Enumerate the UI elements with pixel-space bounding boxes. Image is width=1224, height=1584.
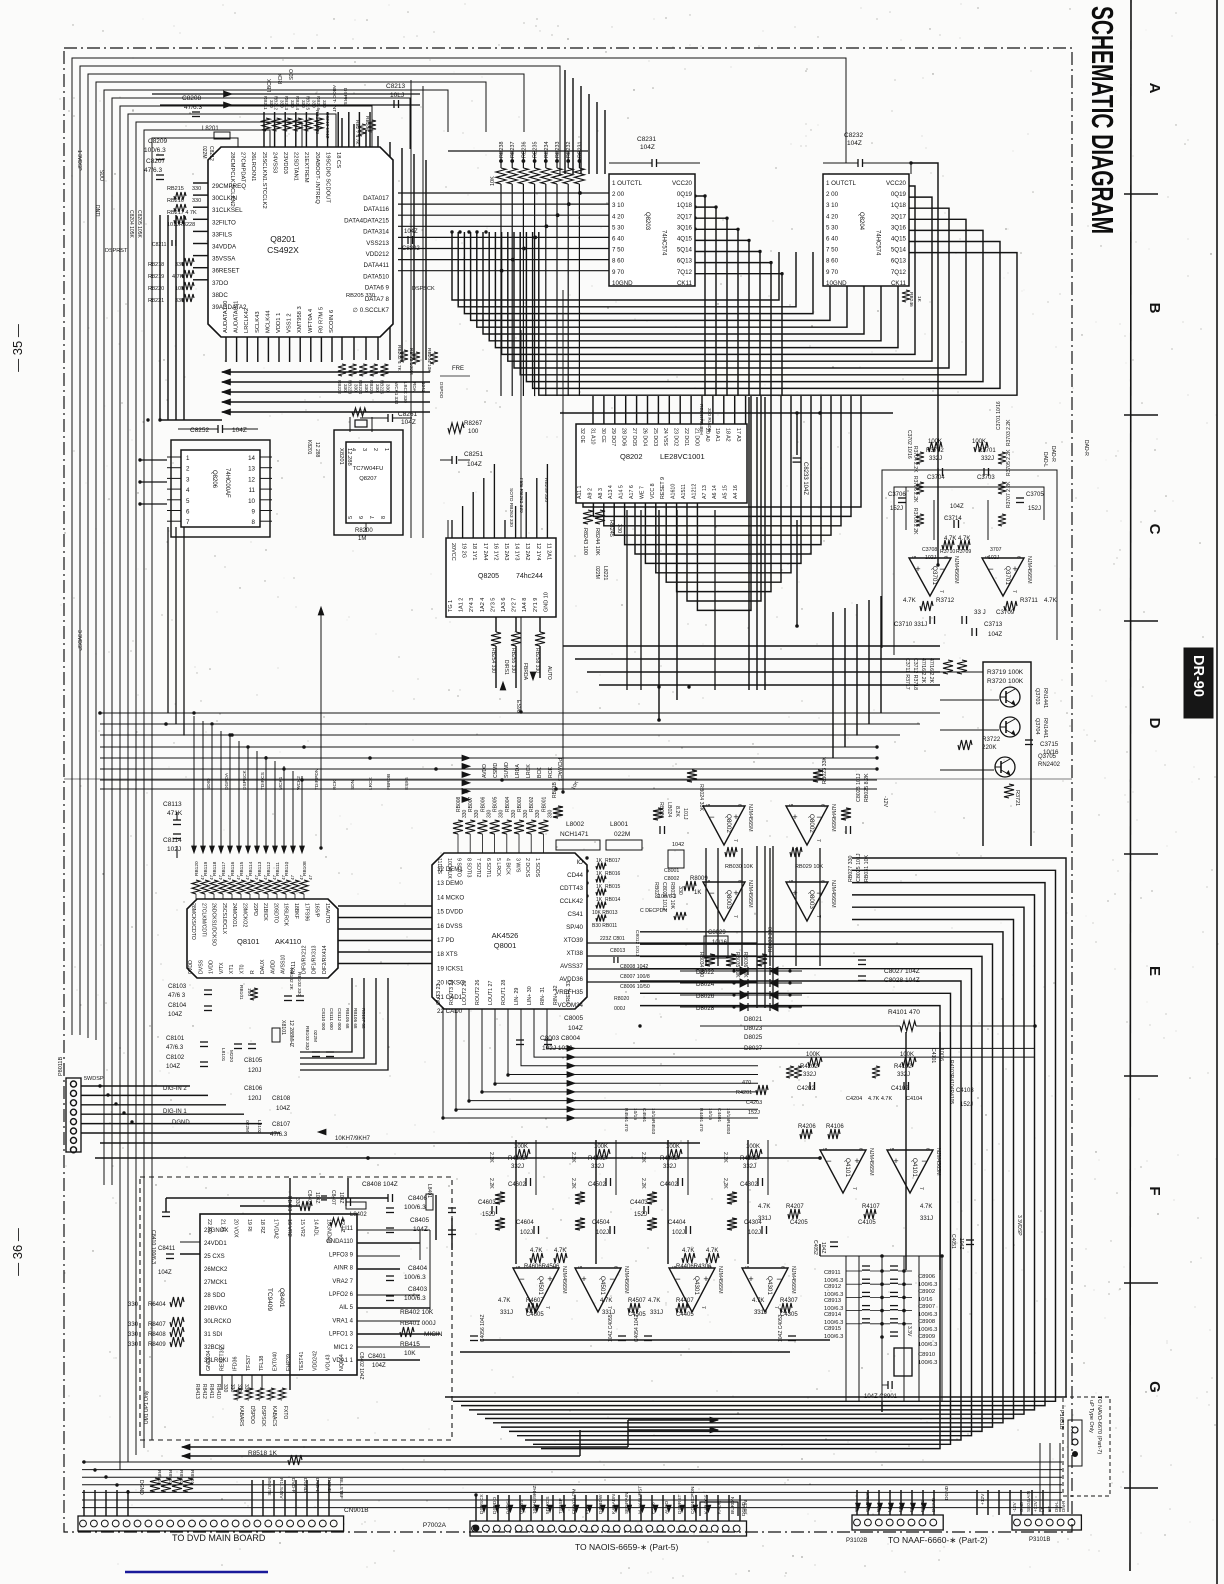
net label PCM/AC3 [556,758,562,781]
wire [128,114,336,1462]
svg-text:101J: 101J [682,808,688,820]
wire [547,1009,1035,1048]
wire [595,1140,597,1264]
svg-text:4.7K: 4.7K [920,1204,932,1210]
wire [933,500,935,540]
svg-text:DGND: DGND [741,1501,747,1516]
connector CN901B body [78,1507,369,1543]
wire [536,478,538,538]
svg-text:5WDSP: 5WDSP [84,1076,104,1082]
wire [182,1446,628,1448]
svg-text:FBRDB: FBRDB [386,774,392,790]
node [657,685,660,688]
svg-text:NQL44: NQL44 [339,1354,345,1371]
svg-text:−: − [816,812,821,822]
svg-text:NCH1471: NCH1471 [560,831,589,838]
svg-text:332J: 332J [743,1164,756,1170]
svg-text:7 50: 7 50 [612,247,625,254]
wire [657,396,659,424]
svg-text:MCK1: MCK1 [278,776,284,790]
svg-text:−: − [988,564,993,574]
svg-text:R3710: R3710 [940,549,955,555]
svg-text:C8404: C8404 [408,1265,428,1272]
svg-text:R8200: R8200 [355,528,373,534]
svg-text:RB215: RB215 [167,186,184,192]
svg-text:6: 6 [736,880,742,883]
svg-text:XT1: XT1 [229,964,235,974]
svg-text:022M: 022M [201,146,207,159]
wire [353,124,355,360]
svg-text:7: 7 [544,1306,550,1309]
IC Q8206 74HC00AF body [167,440,272,537]
margin tick [1124,853,1158,855]
signal arrow [567,1054,575,1060]
svg-text:C8232: C8232 [844,132,864,139]
wire [180,1253,200,1255]
svg-text:RB119: RB119 [203,861,209,876]
svg-text:LRCLK42: LRCLK42 [244,308,250,333]
wire [486,1495,488,1521]
svg-text:23MCKO2: 23MCKO2 [242,903,248,927]
svg-text:RCK: RCK [278,73,284,84]
node [138,458,141,461]
svg-text:FXTO: FXTO [282,1406,288,1419]
wire [819,848,821,966]
net label BT [1047,1506,1052,1512]
capacitor C8205 [136,210,142,238]
node [903,184,906,187]
connector P1651B body [1058,1396,1110,1496]
svg-text:7: 7 [370,516,376,519]
wire [220,731,222,848]
wire [167,215,169,420]
wire [82,1507,1062,1509]
svg-text:16 DVSS: 16 DVSS [437,923,462,930]
svg-text:NJM4565M: NJM4565M [953,556,959,584]
svg-text:C8907: C8907 [918,1304,935,1310]
svg-text:19SLRCK: 19SLRCK [283,903,289,927]
svg-text:BURDN: BURDN [730,1496,736,1514]
svg-text:10/16: 10/16 [632,1108,638,1120]
wire [677,396,771,592]
wire [480,1339,830,1341]
svg-text:104Z: 104Z [640,144,655,151]
svg-text:102J: 102J [596,1230,609,1236]
svg-text:27CLKM/CDTI: 27CLKM/CDTI [200,903,206,937]
svg-text:VREFL 33: VREFL 33 [566,981,572,1005]
resistor R8200 [355,523,373,542]
wire [640,1495,642,1521]
net label 10KH7/9KH7 [335,1136,371,1142]
wire [469,1009,758,1101]
svg-text:AK4526: AK4526 [492,931,519,940]
wire [564,70,566,174]
node [795,624,799,628]
op-amp Q3701 A body [909,556,959,596]
svg-text:17 2A4: 17 2A4 [482,543,488,560]
net label SDO [289,69,295,80]
node [104,1475,107,1478]
capacitor C8410 [150,1212,170,1264]
svg-text:102J: 102J [925,555,937,561]
svg-text:17FS96: 17FS96 [303,903,309,921]
svg-text:RB231: RB231 [577,142,583,158]
svg-text:14 1Y3: 14 1Y3 [514,543,520,560]
capacitor network C3711 C3712 [904,658,967,690]
node [246,745,249,748]
svg-text:Q8207: Q8207 [359,476,376,482]
wire [889,1490,891,1515]
wire [112,98,410,1185]
node [106,1093,109,1096]
svg-text:LOUT2 25: LOUT2 25 [462,981,468,1005]
node [875,756,878,759]
node [585,869,588,872]
svg-text:DATA314: DATA314 [363,229,389,236]
svg-text:0Q19: 0Q19 [891,191,907,198]
svg-text:4.7K: 4.7K [903,597,917,604]
capacitor C4053 [778,1314,796,1342]
node [818,1156,822,1160]
svg-text:C4102: C4102 [891,1086,909,1092]
svg-text:RN1441: RN1441 [1042,688,1048,708]
resistor R4307 network [752,1298,798,1318]
wire [593,396,851,516]
svg-text:330: 330 [280,100,285,108]
svg-text:+: + [1012,564,1017,574]
node [282,767,285,770]
svg-text:2.2K: 2.2K [722,1152,728,1163]
wire [695,229,738,396]
wire [338,951,432,953]
wire [739,1495,741,1521]
signal arrow [495,1505,500,1512]
svg-text:21BICK: 21BICK [262,903,268,921]
svg-text:DATA510: DATA510 [363,273,389,280]
svg-text:RB118: RB118 [212,861,218,876]
signal arrow [567,1089,575,1095]
net label FR [898,1505,904,1512]
connector P8011B body [58,1057,104,1153]
signal arrow [614,1505,619,1512]
wire [552,1495,554,1521]
wire [193,279,208,281]
model tab DR-90 [1184,648,1213,718]
wire [82,1499,1062,1501]
svg-text:C4302: C4302 [740,1182,758,1188]
title SCHEMATIC DIAGRAM [1085,6,1120,234]
svg-text:X8201: X8201 [338,448,344,465]
svg-text:332J: 332J [981,456,994,462]
svg-text:19 2G: 19 2G [461,543,467,558]
resistor bank RB017 [596,858,621,909]
svg-text:R1LS45V: R1LS45V [278,1478,284,1499]
svg-text:LIN+ 30: LIN+ 30 [527,986,533,1005]
net label TDIRPDN [314,768,320,790]
svg-text:47/6.3: 47/6.3 [270,1131,288,1138]
svg-text:R8218: R8218 [148,262,164,268]
svg-text:C8208: C8208 [182,95,202,102]
zone label A [1146,83,1163,94]
wire [357,1229,430,1231]
svg-text:104Z: 104Z [421,382,426,393]
svg-text:D8024: D8024 [696,981,715,988]
resistor RB202 [396,345,408,372]
net label DNTL [94,205,100,218]
svg-text:GND034: GND034 [206,1350,212,1371]
resistor R8217 [167,210,197,224]
svg-text:Q4101: Q4101 [844,1158,851,1177]
wire [100,788,877,790]
svg-text:7: 7 [732,839,738,842]
svg-text:ES9G: ES9G [404,777,410,790]
svg-text:18 1Y1: 18 1Y1 [471,543,477,560]
node [115,1483,118,1486]
svg-text:RB235: RB235 [533,142,539,158]
wire [695,274,782,396]
svg-text:330: 330 [301,100,306,108]
svg-text:104Z: 104Z [820,1242,826,1253]
svg-text:1Q18: 1Q18 [677,202,693,209]
svg-text:RB105 68: RB105 68 [345,1008,350,1029]
signal arrow [567,1107,575,1113]
svg-text:Q3703: Q3703 [1034,688,1040,705]
capacitor C8105 [234,996,334,1074]
svg-text:C8205 105K: C8205 105K [136,210,142,238]
svg-text:5: 5 [576,1266,582,1269]
svg-text:21EXTREM: 21EXTREM [303,152,309,183]
svg-text:−: − [709,812,714,822]
svg-text:L8101: L8101 [220,1048,226,1062]
wire [159,215,161,420]
wire [338,963,432,965]
svg-text:6: 6 [612,1266,618,1269]
wire [165,1198,167,1212]
svg-text:10/16: 10/16 [712,940,728,946]
capacitor C3710 [894,616,935,628]
resistor bank RB108-RB120 body [192,861,313,899]
resistor RB207 [354,120,366,145]
svg-text:6: 6 [819,880,825,883]
svg-text:332J: 332J [803,1072,816,1078]
svg-text:ROUT1 28: ROUT1 28 [501,980,507,1005]
svg-text:D8021: D8021 [744,1016,763,1023]
wire [534,1009,1035,1057]
svg-text:6 40: 6 40 [826,236,839,243]
svg-text:NJM4565M: NJM4565M [868,1148,874,1176]
node [302,745,306,749]
wire [274,761,276,848]
net label SDO2 [98,170,104,181]
signal arrow [300,846,305,853]
wire [604,110,606,174]
capacitor C8103 [168,983,212,1018]
svg-text:RB2 7 4 7K: RB2 7 4 7K [354,120,360,145]
wire [939,1032,941,1270]
wire [687,1140,689,1195]
wire [475,1495,477,1521]
svg-text:VDD242: VDD242 [312,1351,318,1371]
svg-text:19 ICKS1: 19 ICKS1 [437,965,464,972]
svg-text:6: 6 [736,804,742,807]
svg-text:RB211: RB211 [263,96,268,110]
svg-text:AUDATA041: AUDATA041 [234,301,240,333]
wire [100,768,877,770]
signal arrow [878,1503,883,1510]
wire [369,112,371,147]
wire [140,459,167,461]
node [484,230,487,233]
svg-text:WCK1 330: WCK1 330 [394,382,399,405]
svg-text:+: + [748,1274,753,1284]
wire [607,1495,609,1521]
svg-text:GND 10: GND 10 [543,592,549,612]
wire [82,1476,1062,1478]
svg-text:Q8003: Q8003 [808,890,815,909]
wire [933,1490,935,1515]
svg-text:BLLSTBF: BLLSTBF [338,1478,344,1499]
wire [222,391,430,393]
svg-text:100K: 100K [972,439,986,445]
capacitor C8012 [634,930,640,956]
net label FXTO [920,1499,926,1512]
svg-text:332J: 332J [663,1164,676,1170]
svg-text:331J: 331J [650,1310,663,1316]
wire [358,112,360,147]
svg-text:RB238: RB238 [499,142,505,158]
crystal X8201 [338,408,372,466]
signal arrow [534,1505,539,1512]
svg-text:C8001: C8001 [664,868,679,874]
wire [81,1085,190,1087]
svg-text:DAD-R: DAD-R [1050,446,1056,462]
wire [615,1140,617,1195]
wire [501,944,993,1427]
svg-text:330: 330 [462,809,468,818]
capacitor C8901 [864,1381,898,1400]
svg-text:3Q16: 3Q16 [891,224,907,231]
wire [469,895,1035,1410]
svg-text:AK4110: AK4110 [275,937,301,946]
wire [769,848,771,966]
svg-text:1Q18: 1Q18 [891,202,907,209]
wire [900,1490,902,1515]
wire [575,658,940,660]
wire [585,1495,587,1521]
resistor RB034 [698,952,715,977]
net label DIRS1 [519,1500,525,1514]
net label FRE [452,366,464,372]
svg-text:XMT958 3: XMT958 3 [297,306,303,333]
resistor R8243 [582,510,593,555]
svg-text:GNDA110: GNDA110 [326,1239,354,1245]
wire [193,267,208,269]
svg-text:Q8202: Q8202 [620,452,643,461]
svg-text:RB114: RB114 [248,861,254,876]
svg-text:18 XTS: 18 XTS [437,951,458,958]
svg-text:7: 7 [851,1187,857,1190]
svg-text:7: 7 [815,915,821,918]
svg-text:6: 6 [942,556,948,559]
capacitor C8233 [793,458,809,495]
wire [583,396,861,507]
svg-text:A7 13: A7 13 [702,485,708,499]
svg-text:7 SDTI2: 7 SDTI2 [475,858,481,877]
svg-text:TO NAVD-6670 (Part-7): TO NAVD-6670 (Part-7) [1096,1396,1102,1454]
svg-text:6 40: 6 40 [612,236,625,243]
capacitor C8212 [201,146,214,161]
svg-text:RB234: RB234 [544,142,550,158]
svg-text:DVD-L: DVD-L [314,1478,320,1493]
wire [626,510,628,690]
wire [1020,1490,1022,1515]
op-amp Q8003 A [703,880,753,921]
svg-text:74HC00AF: 74HC00AF [224,468,230,498]
wire [625,396,627,424]
wire [82,1461,1062,1463]
svg-text:7: 7 [938,590,944,593]
margin rule line [1130,0,1131,1571]
net label bottom row [394,382,444,405]
svg-text:19 RI: 19 RI [246,1219,252,1232]
capacitor C8401 C8402 [358,1352,386,1380]
net label MCK1 [278,776,284,790]
svg-text:RDA: RDA [412,382,417,393]
margin tick [1124,620,1158,622]
svg-text:EHP39: EHP39 [286,1354,292,1371]
wire [881,1402,883,1412]
svg-text:12: 12 [248,476,255,483]
svg-text:C8910: C8910 [918,1352,935,1358]
node [467,1099,470,1102]
svg-text:RB233: RB233 [555,142,561,158]
wire [222,371,430,373]
svg-text:-12V: -12V [882,796,888,807]
wire [574,1495,576,1521]
net label VCC [980,1493,986,1505]
svg-text:8 60: 8 60 [612,258,625,265]
svg-text:330: 330 [192,198,201,204]
wire [580,86,582,174]
svg-text:2Q17: 2Q17 [677,213,693,220]
svg-text:33 J: 33 J [974,609,986,616]
svg-text:C8027 104Z: C8027 104Z [884,968,920,975]
svg-text:+: + [854,1156,859,1166]
svg-text:TFL38: TFL38 [259,1356,265,1371]
capacitor C8231 [609,136,700,167]
svg-text:100K: 100K [900,1052,914,1058]
svg-text:100/6.3: 100/6.3 [918,1282,937,1288]
svg-text:330 RIADB: 330 RIADB [706,408,712,432]
node [454,1108,457,1111]
resistor network R4102 bank [736,1048,974,1116]
wire [868,600,870,724]
net label +12V [1033,1500,1038,1512]
signal arrow [282,846,287,853]
capacitor C3709 [962,609,1015,624]
svg-text:2Y1 9: 2Y1 9 [533,598,539,612]
svg-text:5: 5 [888,1148,894,1151]
svg-text:C8915: C8915 [824,1326,841,1332]
svg-text:C8025 101J: C8025 101J [856,853,862,882]
node [818,411,822,415]
signal arrow [224,91,232,97]
wire [587,942,757,944]
svg-text:RB222: RB222 [337,380,342,394]
svg-text:XTO39: XTO39 [564,937,584,944]
svg-text:RB216: RB216 [167,198,184,204]
net label DSPS1 [505,1498,511,1514]
